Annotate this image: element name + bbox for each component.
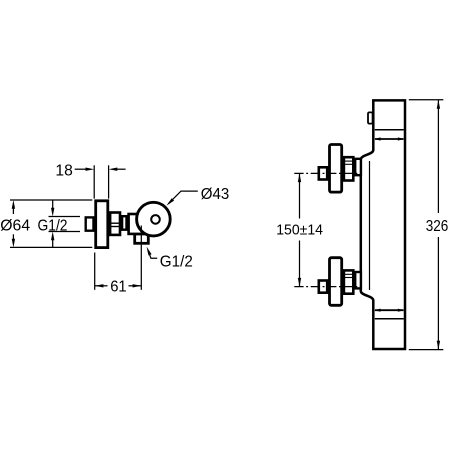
svg-text:G1/2: G1/2 bbox=[38, 218, 68, 235]
svg-text:Ø64: Ø64 bbox=[0, 218, 30, 235]
svg-text:18: 18 bbox=[55, 162, 72, 179]
svg-text:61: 61 bbox=[110, 278, 127, 295]
svg-text:G1/2: G1/2 bbox=[160, 253, 193, 270]
svg-text:Ø43: Ø43 bbox=[201, 186, 230, 203]
svg-text:150±14: 150±14 bbox=[276, 222, 323, 239]
svg-text:326: 326 bbox=[426, 218, 449, 235]
